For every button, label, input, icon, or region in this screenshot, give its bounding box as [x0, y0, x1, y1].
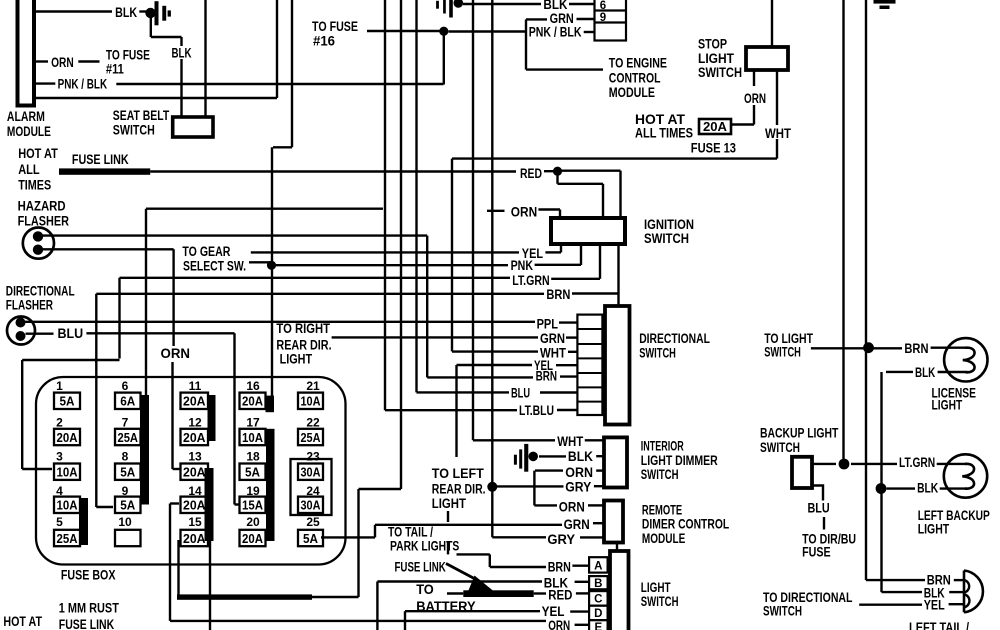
svg-text:5A: 5A	[120, 466, 135, 480]
svg-text:11: 11	[189, 379, 202, 393]
svg-text:SWITCH: SWITCH	[641, 467, 679, 482]
svg-text:GRN: GRN	[564, 517, 590, 532]
svg-text:LIGHT: LIGHT	[641, 580, 671, 595]
svg-text:GRY: GRY	[547, 532, 575, 547]
svg-text:FUSE 13: FUSE 13	[691, 141, 737, 156]
svg-text:SWITCH: SWITCH	[644, 231, 689, 246]
svg-text:FLASHER: FLASHER	[18, 214, 70, 229]
svg-text:BLU: BLU	[511, 385, 530, 400]
svg-text:TO LEFT: TO LEFT	[432, 466, 485, 481]
svg-text:23: 23	[306, 450, 320, 464]
svg-text:TO RIGHT: TO RIGHT	[276, 321, 330, 336]
svg-text:20A: 20A	[183, 395, 206, 409]
svg-text:PNK: PNK	[511, 258, 534, 273]
svg-text:25A: 25A	[57, 532, 78, 546]
svg-text:DIRECTIONAL: DIRECTIONAL	[6, 284, 75, 299]
svg-text:SWITCH: SWITCH	[760, 440, 800, 455]
svg-text:17: 17	[246, 416, 260, 430]
svg-text:FUSE LINK: FUSE LINK	[59, 617, 115, 630]
svg-text:FUSE LINK: FUSE LINK	[395, 559, 446, 574]
svg-text:ORN: ORN	[511, 205, 537, 220]
svg-text:BRN: BRN	[536, 369, 557, 384]
svg-text:20A: 20A	[183, 431, 206, 445]
svg-text:GRY: GRY	[565, 480, 591, 495]
svg-text:BRN: BRN	[904, 341, 928, 356]
svg-text:MODULE: MODULE	[642, 531, 685, 546]
svg-text:PNK / BLK: PNK / BLK	[58, 77, 108, 92]
svg-text:LT.BLU: LT.BLU	[519, 403, 554, 418]
svg-text:20A: 20A	[183, 499, 206, 513]
svg-text:16: 16	[246, 379, 260, 393]
svg-text:SWITCH: SWITCH	[639, 346, 676, 361]
svg-text:PARK LIGHTS: PARK LIGHTS	[390, 539, 459, 554]
svg-text:SWITCH: SWITCH	[698, 65, 742, 80]
svg-text:ORN: ORN	[161, 346, 191, 361]
svg-text:E: E	[594, 622, 602, 630]
svg-text:25A: 25A	[118, 431, 139, 445]
svg-text:BRN: BRN	[546, 287, 570, 302]
svg-text:13: 13	[188, 450, 202, 464]
svg-text:15: 15	[188, 515, 202, 529]
svg-text:MODULE: MODULE	[609, 85, 655, 100]
svg-text:BLU: BLU	[58, 326, 84, 341]
svg-text:5A: 5A	[60, 395, 75, 409]
svg-text:INTERIOR: INTERIOR	[641, 439, 684, 454]
svg-text:BLK: BLK	[568, 449, 593, 464]
svg-text:LIGHT: LIGHT	[280, 352, 313, 367]
svg-text:HAZARD: HAZARD	[18, 199, 66, 214]
svg-text:9: 9	[122, 484, 129, 498]
svg-text:3: 3	[56, 450, 63, 464]
svg-text:REAR DIR.: REAR DIR.	[276, 337, 331, 352]
svg-text:MODULE: MODULE	[7, 124, 51, 139]
svg-text:FLASHER: FLASHER	[6, 297, 53, 312]
svg-text:TO ENGINE: TO ENGINE	[609, 56, 667, 71]
svg-text:HOT AT: HOT AT	[18, 146, 58, 161]
svg-text:ORN: ORN	[559, 500, 585, 515]
svg-text:LIGHT: LIGHT	[918, 522, 950, 537]
svg-text:19: 19	[246, 484, 260, 498]
svg-text:REAR DIR.: REAR DIR.	[432, 482, 486, 497]
svg-text:FUSE LINK: FUSE LINK	[72, 152, 129, 167]
svg-text:ALL: ALL	[18, 162, 39, 177]
svg-text:5A: 5A	[245, 466, 260, 480]
svg-text:SWITCH: SWITCH	[641, 594, 679, 609]
svg-text:ALL TIMES: ALL TIMES	[635, 126, 693, 141]
svg-text:30A: 30A	[301, 499, 321, 513]
svg-text:BLK: BLK	[915, 365, 935, 380]
svg-text:24: 24	[306, 484, 320, 498]
svg-text:18: 18	[246, 450, 260, 464]
svg-text:12: 12	[188, 416, 202, 430]
svg-text:REMOTE: REMOTE	[642, 503, 682, 518]
svg-text:SWITCH: SWITCH	[113, 123, 155, 138]
svg-text:GRN: GRN	[540, 331, 565, 346]
svg-text:WHT: WHT	[765, 126, 792, 141]
svg-text:LT.GRN: LT.GRN	[512, 273, 549, 288]
svg-text:#16: #16	[313, 34, 335, 49]
svg-text:CONTROL: CONTROL	[609, 71, 661, 86]
svg-text:25A: 25A	[301, 431, 321, 445]
svg-text:DIRECTIONAL: DIRECTIONAL	[639, 331, 710, 346]
svg-text:TO: TO	[416, 582, 434, 597]
svg-text:20A: 20A	[703, 120, 727, 134]
svg-text:7: 7	[122, 416, 129, 430]
svg-text:1 MM RUST: 1 MM RUST	[59, 601, 120, 616]
svg-text:20A: 20A	[57, 431, 78, 445]
svg-text:20A: 20A	[242, 532, 263, 546]
svg-text:30A: 30A	[301, 466, 321, 480]
svg-text:25: 25	[306, 515, 320, 529]
svg-text:10A: 10A	[242, 431, 263, 445]
svg-text:FUSE BOX: FUSE BOX	[61, 567, 116, 582]
svg-text:ORN: ORN	[548, 618, 570, 630]
svg-text:10A: 10A	[57, 499, 78, 513]
svg-text:BATTERY: BATTERY	[416, 599, 475, 614]
svg-text:20A: 20A	[183, 532, 206, 546]
svg-text:SWITCH: SWITCH	[763, 604, 802, 619]
svg-text:20A: 20A	[183, 466, 206, 480]
svg-text:10A: 10A	[301, 395, 321, 409]
svg-text:C: C	[594, 594, 602, 606]
svg-text:TO GEAR: TO GEAR	[182, 244, 230, 259]
svg-text:HOT AT: HOT AT	[3, 614, 42, 629]
svg-text:TO FUSE: TO FUSE	[106, 48, 150, 63]
svg-text:1: 1	[56, 379, 63, 393]
svg-text:IGNITION: IGNITION	[644, 217, 694, 232]
svg-text:9: 9	[600, 12, 606, 24]
svg-text:BLU: BLU	[808, 501, 830, 516]
svg-text:YEL: YEL	[542, 604, 565, 619]
svg-text:20: 20	[246, 515, 260, 529]
svg-text:4: 4	[56, 484, 63, 498]
svg-text:15A: 15A	[242, 499, 263, 513]
svg-text:WHT: WHT	[557, 434, 584, 449]
svg-text:STOP: STOP	[698, 37, 727, 52]
svg-text:LIGHT DIMMER: LIGHT DIMMER	[641, 453, 718, 468]
svg-text:#11: #11	[106, 62, 124, 77]
svg-text:LEFT TAIL /: LEFT TAIL /	[909, 620, 969, 630]
svg-text:ORN: ORN	[744, 91, 766, 106]
svg-text:ORN: ORN	[51, 55, 74, 70]
svg-text:TO TAIL /: TO TAIL /	[388, 525, 433, 540]
svg-text:PPL: PPL	[537, 317, 558, 332]
svg-text:10: 10	[118, 515, 132, 529]
svg-text:DIMER CONTROL: DIMER CONTROL	[642, 517, 729, 532]
svg-text:BLK: BLK	[172, 46, 192, 61]
svg-text:6: 6	[600, 0, 606, 12]
svg-text:2: 2	[56, 416, 63, 430]
svg-text:BLK: BLK	[917, 480, 938, 495]
svg-text:B: B	[594, 578, 602, 590]
svg-text:RED: RED	[520, 166, 542, 181]
svg-text:A: A	[594, 561, 602, 573]
svg-text:14: 14	[188, 484, 202, 498]
svg-text:5A: 5A	[303, 532, 318, 546]
svg-text:6: 6	[122, 379, 129, 393]
svg-text:5: 5	[56, 515, 63, 529]
svg-text:TO FUSE: TO FUSE	[312, 19, 358, 34]
svg-text:SWITCH: SWITCH	[764, 345, 801, 360]
svg-text:TIMES: TIMES	[18, 178, 51, 193]
svg-text:SEAT BELT: SEAT BELT	[113, 108, 170, 123]
svg-text:YEL: YEL	[924, 598, 945, 613]
svg-text:6A: 6A	[120, 395, 135, 409]
svg-text:5A: 5A	[120, 499, 135, 513]
svg-text:8: 8	[122, 450, 129, 464]
svg-text:BRN: BRN	[548, 559, 571, 574]
svg-text:LIGHT: LIGHT	[698, 51, 735, 66]
svg-text:RED: RED	[548, 588, 572, 603]
svg-text:BLK: BLK	[115, 5, 137, 20]
svg-text:21: 21	[306, 379, 320, 393]
svg-text:ORN: ORN	[565, 465, 593, 480]
svg-text:FUSE: FUSE	[802, 545, 831, 560]
svg-text:SELECT SW.: SELECT SW.	[183, 259, 246, 274]
svg-text:PNK / BLK: PNK / BLK	[529, 24, 582, 39]
svg-text:10A: 10A	[57, 466, 78, 480]
svg-text:ALARM: ALARM	[7, 109, 45, 124]
svg-text:D: D	[594, 608, 602, 620]
svg-text:LIGHT: LIGHT	[932, 398, 963, 413]
svg-text:BACKUP LIGHT: BACKUP LIGHT	[760, 426, 839, 441]
svg-text:LIGHT: LIGHT	[432, 496, 467, 511]
svg-text:LT.GRN: LT.GRN	[899, 455, 935, 470]
svg-text:20A: 20A	[242, 395, 263, 409]
svg-text:22: 22	[306, 416, 320, 430]
